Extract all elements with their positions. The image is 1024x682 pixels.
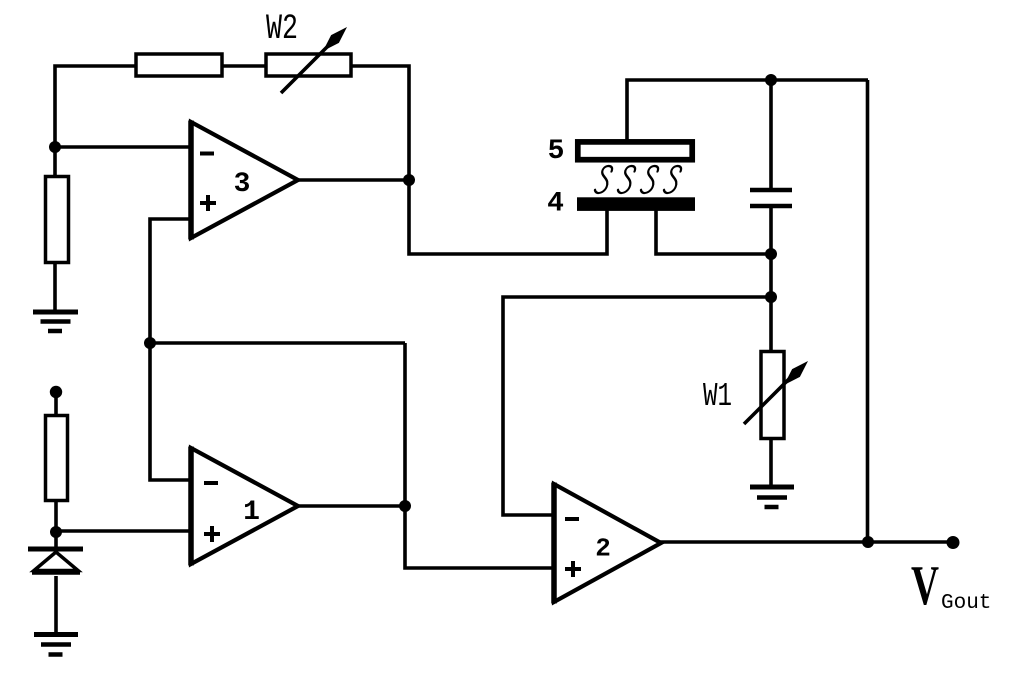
sensor bottom plate (electrode 4) <box>577 197 695 211</box>
wire: sensor plate 4 right lead to capacitor node <box>656 210 771 254</box>
potentiometer W1 <box>744 352 808 439</box>
svg-text:W2: W2 <box>266 9 298 49</box>
svg-text:2: 2 <box>595 534 611 564</box>
resistor (bottom-left) <box>46 416 68 501</box>
wire: W2 right end to vertical drop <box>351 66 409 181</box>
label V Gout <box>911 555 991 617</box>
springs between plates <box>594 166 682 193</box>
svg-text:V: V <box>911 555 939 617</box>
node: op-amp 1 output junction <box>399 500 411 512</box>
op-amp 1 <box>191 447 298 566</box>
wire: node to op-amp 1 non-inverting input <box>56 529 192 533</box>
node: capacitor / plate 4 junction <box>765 248 777 260</box>
wire: node to op-amp 3 inverting input <box>55 145 192 149</box>
node: op-amp 1 non-inverting junction <box>50 526 62 538</box>
capacitor C top lead <box>769 80 773 188</box>
wire: between top resistor and W2 <box>222 64 267 68</box>
node B junction <box>144 337 156 349</box>
wire: diode to ground <box>54 576 58 634</box>
node: op-amp 3 inverting input junction <box>49 141 61 153</box>
svg-text:1: 1 <box>243 497 260 528</box>
wire: op-amp 2 output to terminal <box>659 540 953 544</box>
wire: op-amp 3 output <box>296 178 409 182</box>
wire: op-amp 1 output <box>296 504 405 508</box>
wire: left resistor to ground <box>53 263 57 312</box>
wire: right rail vertical <box>866 80 870 542</box>
wire: W1 to ground <box>769 438 773 487</box>
resistor (left, to ground) <box>46 177 69 263</box>
node: output meets right rail <box>862 536 874 548</box>
op-amp 2 <box>554 483 661 604</box>
ground (below diode) <box>34 635 78 655</box>
wire: node to left resistor <box>53 147 57 177</box>
svg-text:Gout: Gout <box>941 592 991 615</box>
resistor (fixed, top feedback) <box>136 54 222 76</box>
capacitor C <box>750 190 792 206</box>
svg-text:5: 5 <box>548 136 565 167</box>
ground (below left resistor) <box>33 312 78 331</box>
capacitor C bottom lead down to W1 <box>769 208 773 352</box>
wire: top rail to sensor plate 5 <box>627 80 868 141</box>
wire: feedback to op-amp 2 inverting input <box>503 297 771 515</box>
wire: op-amp 3 output down and right to sensor plate 4 left lead <box>409 180 607 254</box>
wire: left vertical of top feedback loop <box>55 66 136 148</box>
wire: node B to right vertical <box>150 341 405 345</box>
svg-text:4: 4 <box>547 189 564 220</box>
node: op-amp 3 output junction <box>403 174 415 186</box>
diode D <box>28 549 83 573</box>
node: feedback junction <box>765 291 777 303</box>
svg-text:W1: W1 <box>703 378 732 415</box>
wire: op-amp 3 non-inverting input down to node B <box>150 219 192 480</box>
wire: terminal to bottom-left resistor <box>54 393 58 416</box>
wire: resistor to diode <box>54 501 58 550</box>
node: top rail junction <box>765 74 777 86</box>
wire: vertical x405 down to op-amp 2 non-inverting input <box>405 343 555 568</box>
terminal VGout <box>947 536 960 549</box>
sensor top plate (electrode 5) <box>578 142 692 160</box>
svg-text:3: 3 <box>234 169 251 200</box>
op-amp 3 <box>191 121 298 240</box>
terminal: bottom-left input node <box>50 386 62 398</box>
ground (below W1) <box>750 487 794 507</box>
potentiometer W2 <box>266 27 351 93</box>
